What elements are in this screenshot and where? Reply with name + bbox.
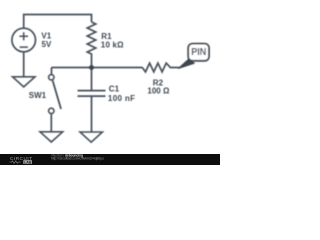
svg-text:100 Ω: 100 Ω xyxy=(147,86,170,95)
svg-text:PIN: PIN xyxy=(191,47,206,58)
svg-text:100 nF: 100 nF xyxy=(108,94,135,103)
svg-text:SW1: SW1 xyxy=(29,91,47,100)
svg-text:LAB: LAB xyxy=(24,160,32,164)
svg-text:5V: 5V xyxy=(42,40,52,49)
svg-text:C1: C1 xyxy=(109,84,120,93)
svg-text:10 kΩ: 10 kΩ xyxy=(101,40,124,49)
svg-text:http://circuitlab.com/c/6vkm2n: http://circuitlab.com/c/6vkm2n4q86pu xyxy=(51,157,104,161)
